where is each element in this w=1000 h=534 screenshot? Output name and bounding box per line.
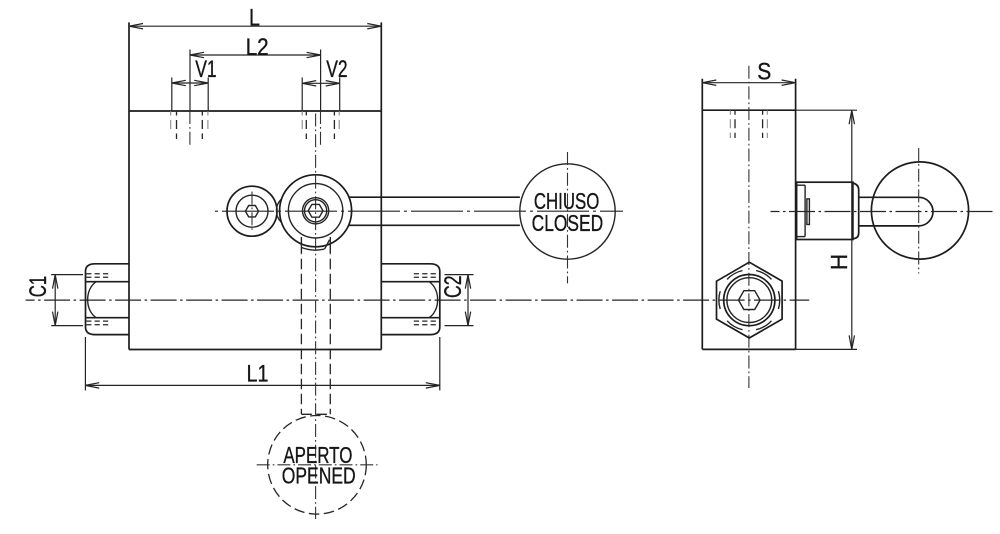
svg-text:V1: V1 [195, 56, 216, 83]
svg-text:H: H [826, 254, 852, 271]
svg-text:V2: V2 [326, 56, 347, 83]
svg-text:C2: C2 [440, 275, 467, 298]
svg-text:L: L [249, 5, 260, 32]
svg-text:L1: L1 [247, 361, 269, 388]
svg-text:OPENED: OPENED [282, 463, 356, 489]
svg-text:S: S [757, 59, 771, 86]
svg-text:L2: L2 [246, 34, 269, 61]
svg-text:C1: C1 [25, 276, 52, 298]
svg-text:CLOSED: CLOSED [532, 210, 604, 236]
